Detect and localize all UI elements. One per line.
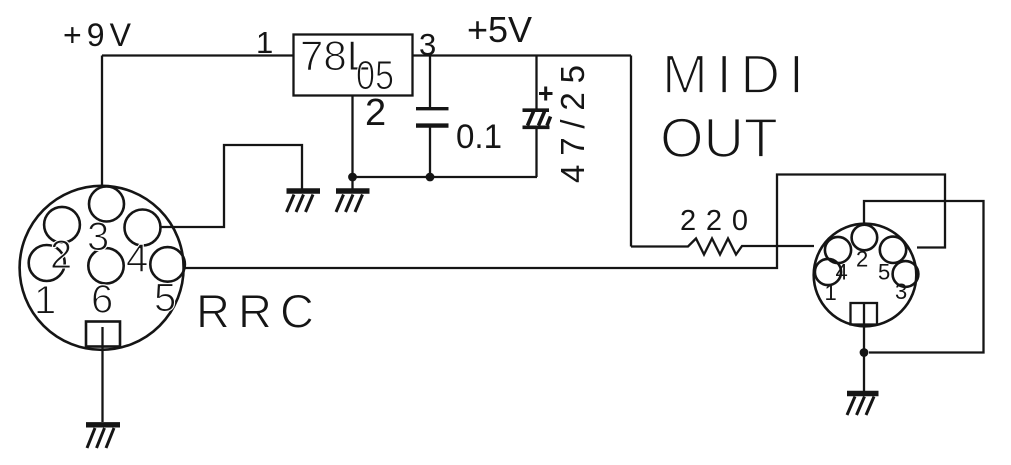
ground symbol under J2 xyxy=(847,394,879,416)
svg-text:3: 3 xyxy=(895,279,907,304)
svg-text:5: 5 xyxy=(878,260,890,285)
svg-text:0.1: 0.1 xyxy=(456,118,502,156)
svg-text:RRC: RRC xyxy=(196,285,314,338)
wire +5V drop to resistor xyxy=(630,56,632,247)
wire regulator pin 2 to ground xyxy=(351,96,353,189)
svg-text:2: 2 xyxy=(365,92,386,134)
svg-text:6: 6 xyxy=(91,278,113,322)
connector J2 MIDI DIN xyxy=(814,224,919,327)
junction dot shield node xyxy=(860,348,869,357)
wire ground rail xyxy=(353,176,538,178)
svg-text:47/25: 47/25 xyxy=(554,65,591,183)
ground symbol middle left xyxy=(287,191,321,212)
wire J2 shield to ground xyxy=(863,304,865,391)
wire RRC shield to ground xyxy=(101,327,103,422)
wire MIDI pin 2 to shield node xyxy=(864,201,984,353)
ground symbol under regulator pin 2 xyxy=(336,191,370,212)
svg-text:1: 1 xyxy=(256,25,273,60)
wire +9V drop to RRC pin 3 xyxy=(101,56,103,188)
junction dot regulator ground node xyxy=(348,173,357,182)
svg-text:5: 5 xyxy=(154,276,176,320)
svg-text:3: 3 xyxy=(87,215,109,259)
svg-text:2: 2 xyxy=(856,247,868,272)
svg-text:MIDI: MIDI xyxy=(662,43,804,105)
svg-text:3: 3 xyxy=(419,27,436,62)
capacitor C2 47/25 electrolytic xyxy=(523,56,592,184)
svg-text:4: 4 xyxy=(836,260,848,285)
svg-text:1: 1 xyxy=(825,280,837,305)
svg-text:1: 1 xyxy=(34,279,56,323)
svg-text:2: 2 xyxy=(50,233,72,277)
wire regulator output +5V rail xyxy=(413,54,631,56)
svg-text:+5V: +5V xyxy=(467,9,532,50)
svg-text:OUT: OUT xyxy=(660,106,778,169)
svg-text:220: 220 xyxy=(680,205,748,237)
capacitor C1 0.1uF xyxy=(416,56,502,182)
svg-text:+9V: +9V xyxy=(63,17,132,53)
ground symbol under J1 xyxy=(86,425,120,448)
connector J1 RRC DIN xyxy=(20,186,185,350)
wire RRC pin 5 to MIDI pin 5 xyxy=(185,175,946,269)
op-amp U1 78L05 regulator box xyxy=(294,32,413,98)
svg-text:4: 4 xyxy=(126,237,148,281)
resistor R1 220 xyxy=(631,205,814,255)
wire +9V horizontal rail to regulator pin 1 xyxy=(102,54,293,56)
wire RRC pin 4 to ground xyxy=(161,145,303,227)
